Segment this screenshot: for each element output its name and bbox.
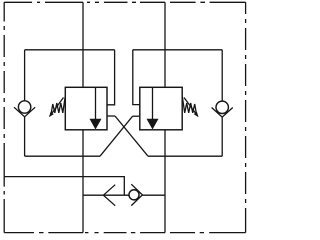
free flow direction arrow of check CV3 xyxy=(103,185,115,206)
adjustable spring of V1 (zigzag) xyxy=(51,97,65,114)
counterbalance valve body V1 xyxy=(65,87,107,130)
flow arrow inside V2 xyxy=(147,87,159,129)
wire: top header right (node V2) xyxy=(133,49,222,51)
enclosure boundary right edge (dash-dot) xyxy=(245,2,247,232)
wire: drop from header to valve body 1 upper port xyxy=(107,50,115,105)
pilot stub of V1 xyxy=(107,115,115,117)
pilot stub of V2 xyxy=(133,115,140,117)
check valve CV2 top leg xyxy=(221,50,223,101)
wire: gauge/vent branch from left boundary to check junction xyxy=(4,177,124,195)
check valve CV3 ball xyxy=(129,190,139,200)
pilot crossing wire A (left valve to right net) xyxy=(115,116,148,156)
wire: drop from header to valve body 2 upper port xyxy=(133,50,140,105)
check valve CV2 bottom leg xyxy=(221,117,223,156)
check valve CV3 seat xyxy=(131,184,142,205)
flow arrow inside V1 xyxy=(90,87,102,129)
check valve CV1 top leg xyxy=(24,50,26,101)
adjustable spring of V2 (zigzag) xyxy=(182,97,196,114)
wire: port C1 line (bottom left) xyxy=(82,130,84,233)
wire: top header left (node V1) xyxy=(25,49,115,51)
adjustment arrow of V2 spring xyxy=(184,98,199,118)
counterbalance valve body V2 xyxy=(140,87,182,130)
wire: bottom check line left segment xyxy=(83,194,129,196)
check valve CV2 seat xyxy=(212,108,233,118)
adjustment arrow of V1 spring xyxy=(49,98,64,118)
wire: port V2 line (top right) xyxy=(164,2,166,87)
wire: bottom header right (node C2) xyxy=(148,155,222,157)
wire: port V1 line (top left) xyxy=(82,2,84,87)
check valve CV1 seat xyxy=(14,107,35,117)
pilot crossing wire B (right valve to left net) xyxy=(100,116,133,156)
enclosure boundary left edge (dash-dot) xyxy=(3,2,5,232)
enclosure boundary bottom edge (dash-dot) xyxy=(4,232,245,234)
wire: bottom check line right segment xyxy=(142,194,165,196)
wire: bottom header left (node C1) xyxy=(25,155,100,157)
check valve CV1 ball xyxy=(18,101,30,113)
check valve CV1 bottom leg xyxy=(24,117,26,156)
check valve CV2 ball xyxy=(216,101,228,113)
enclosure boundary top edge (dash-dot) xyxy=(4,1,245,3)
wire: port C2 line (bottom right) xyxy=(164,130,166,233)
